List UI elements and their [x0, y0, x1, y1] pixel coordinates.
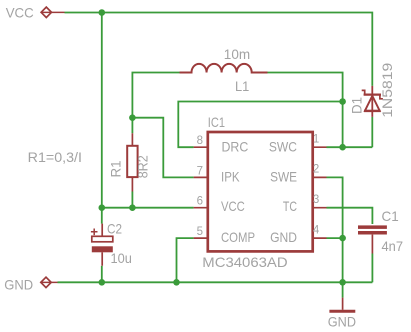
svg-text:GND: GND — [328, 313, 356, 329]
svg-text:2: 2 — [313, 164, 319, 176]
svg-text:R1: R1 — [108, 160, 124, 177]
svg-text:6: 6 — [197, 195, 203, 207]
svg-text:4: 4 — [313, 224, 320, 236]
svg-text:VCC: VCC — [221, 198, 245, 214]
svg-text:1: 1 — [313, 134, 319, 146]
svg-text:IPK: IPK — [221, 169, 240, 185]
svg-text:1N5819: 1N5819 — [379, 63, 395, 118]
svg-text:4n7: 4n7 — [382, 238, 404, 254]
svg-text:IC1: IC1 — [208, 114, 225, 130]
svg-text:L1: L1 — [235, 78, 249, 94]
svg-text:SWE: SWE — [270, 169, 297, 185]
svg-text:TC: TC — [283, 198, 297, 214]
svg-text:10u: 10u — [111, 250, 132, 266]
svg-text:C2: C2 — [107, 221, 122, 237]
svg-text:7: 7 — [197, 165, 203, 177]
svg-text:3: 3 — [313, 194, 319, 206]
svg-text:SWC: SWC — [269, 139, 297, 155]
svg-text:GND: GND — [4, 276, 33, 292]
svg-text:MC34063AD: MC34063AD — [202, 254, 287, 270]
svg-text:8: 8 — [197, 135, 203, 147]
svg-text:GND: GND — [270, 229, 297, 245]
svg-text:8R2: 8R2 — [134, 155, 150, 178]
svg-text:DRC: DRC — [222, 139, 249, 155]
svg-text:VCC: VCC — [6, 4, 34, 20]
svg-text:R1=0,3/I: R1=0,3/I — [28, 149, 82, 165]
svg-text:COMP: COMP — [221, 229, 255, 245]
svg-text:D1: D1 — [349, 97, 365, 114]
svg-text:10m: 10m — [224, 46, 250, 62]
svg-text:5: 5 — [197, 226, 203, 238]
svg-text:C1: C1 — [382, 208, 399, 224]
